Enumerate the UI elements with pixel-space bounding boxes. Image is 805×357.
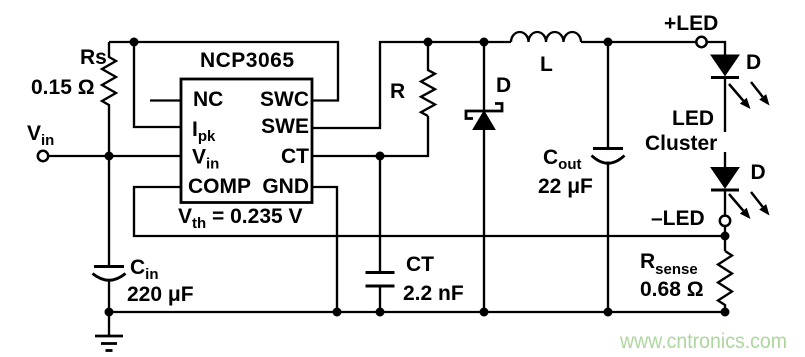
resistor Rs	[102, 42, 116, 156]
LED D2 triangle	[711, 168, 739, 189]
wire: NC stub	[150, 99, 181, 101]
resistor Rsense	[718, 251, 732, 312]
svg-text:GND: GND	[262, 175, 309, 198]
svg-text:NC: NC	[193, 88, 223, 111]
node: junction diode top	[480, 38, 489, 47]
svg-text:LED: LED	[672, 107, 714, 130]
svg-text:R: R	[390, 80, 405, 103]
svg-text:D: D	[746, 51, 761, 74]
svg-text:COMP: COMP	[188, 175, 251, 198]
svg-text:L: L	[540, 53, 553, 76]
svg-text:220 μF: 220 μF	[127, 283, 194, 306]
svg-text:SWC: SWC	[260, 88, 309, 111]
capacitor Cout plus plate	[593, 147, 623, 150]
node: bus junction GND pin	[333, 308, 342, 317]
terminal -LED	[720, 216, 730, 226]
capacitor Cin lead upper	[108, 156, 110, 266]
node: bus junction diode	[480, 308, 489, 317]
inductor L	[511, 32, 581, 42]
wire: Vin input	[48, 155, 181, 157]
LED D2 arrow 1	[729, 194, 743, 211]
capacitor Cin lead lower	[108, 280, 110, 313]
capacitor CT lead lower	[379, 286, 381, 312]
LED D1 arrow 2	[751, 82, 763, 97]
svg-text:+LED: +LED	[664, 12, 718, 35]
LED D2 cathode bar	[711, 189, 739, 192]
diode D cathode lead	[483, 42, 485, 111]
wire: +LED to LED string	[707, 42, 725, 55]
svg-text:D: D	[496, 74, 511, 97]
wire: LED D2 to -LED terminal	[724, 190, 726, 215]
node: junction Ipk riser on top rail	[130, 38, 139, 47]
diode D anode lead	[483, 130, 485, 313]
ground symbol	[108, 312, 110, 336]
node: bus junction CT	[376, 308, 385, 317]
svg-text:–LED: –LED	[651, 207, 705, 230]
node: junction Cout top	[604, 38, 613, 47]
diode D triangle	[473, 111, 495, 130]
wire: GND pin to ground bus	[312, 187, 337, 312]
wire: inductor to +LED terminal	[581, 41, 696, 43]
wire: Rs top rail to SWC pin	[109, 42, 338, 101]
svg-text:SWE: SWE	[261, 115, 309, 138]
svg-text:D: D	[751, 161, 766, 184]
svg-text:0.15 Ω: 0.15 Ω	[31, 76, 95, 99]
node: junction Vin/Rs/Cin	[105, 152, 114, 161]
node: junction CT	[376, 152, 385, 161]
LED D2 arrow 2	[751, 192, 763, 207]
svg-text:CT: CT	[406, 253, 434, 276]
svg-text:www.cntronics.com: www.cntronics.com	[619, 330, 787, 353]
capacitor CT lead upper	[379, 156, 381, 272]
svg-text:CT: CT	[281, 145, 309, 168]
svg-text:2.2 nF: 2.2 nF	[403, 282, 464, 305]
node: junction feedback/Rsense	[721, 232, 730, 241]
wire: LED string upper segment	[724, 78, 726, 133]
LED D1 arrow 1	[729, 84, 743, 101]
terminal +LED	[696, 37, 706, 47]
wire: LED string lower segment	[724, 152, 726, 168]
capacitor Cout lead lower	[607, 162, 609, 313]
LED D1 triangle	[711, 55, 739, 76]
svg-text:22 μF: 22 μF	[538, 175, 593, 198]
node: bus junction Cin	[105, 308, 114, 317]
capacitor Cout curved plate	[592, 156, 625, 164]
LED D1 cathode bar	[711, 76, 739, 79]
wire: ground bus	[109, 311, 725, 313]
node: junction R top	[424, 38, 433, 47]
wire: CT pin to R bottom	[312, 116, 428, 156]
wire: Ipk riser	[134, 42, 181, 127]
svg-text:Rs: Rs	[80, 46, 107, 69]
terminal Vin	[38, 151, 48, 161]
svg-text:0.68 Ω: 0.68 Ω	[640, 278, 704, 301]
capacitor Cin curved plate	[93, 274, 126, 281]
resistor R	[421, 42, 435, 116]
op-amp U1 NCP3065 box	[181, 79, 312, 203]
node: bus junction Rsense	[721, 308, 730, 317]
wire: SWE to top rail right	[312, 42, 511, 128]
svg-text:NCP3065: NCP3065	[200, 49, 294, 72]
wire: COMP feedback to Rsense top	[134, 187, 725, 236]
wire: -LED terminal to Rsense	[724, 226, 726, 251]
capacitor Cin plus plate	[94, 265, 124, 268]
diode D schottky bar	[466, 104, 502, 119]
node: bus junction Cout	[604, 308, 613, 317]
svg-text:Cluster: Cluster	[645, 132, 717, 155]
capacitor CT plates	[366, 271, 395, 274]
capacitor Cout lead upper	[607, 42, 609, 148]
